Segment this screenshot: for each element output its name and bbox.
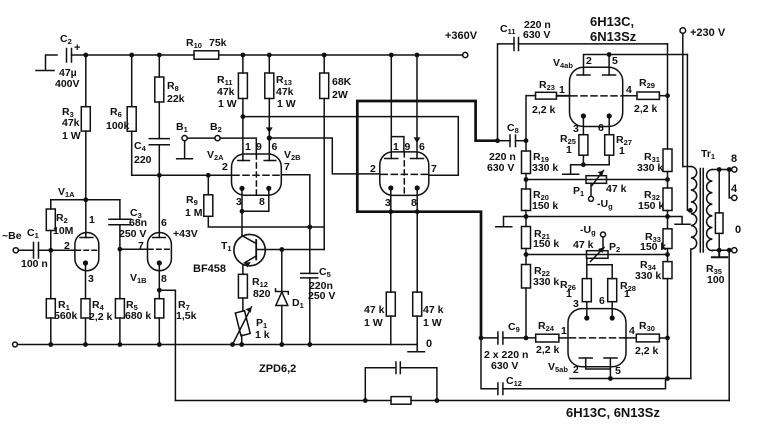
tube V5ab envelope xyxy=(568,309,626,367)
V2A anode plate xyxy=(238,160,250,162)
node C8 left / C11 xyxy=(495,138,500,143)
resistor R9 xyxy=(204,175,213,216)
node output bus bottom xyxy=(665,376,670,381)
svg-text:150 k: 150 k xyxy=(638,200,664,212)
svg-text:6: 6 xyxy=(161,217,167,229)
wire C11 to output bus xyxy=(519,43,668,45)
V3 pin6 anode wire xyxy=(416,55,418,159)
V3 grid dashed line xyxy=(381,173,427,175)
svg-text:330 k: 330 k xyxy=(532,162,558,174)
svg-text:6H13C,: 6H13C, xyxy=(590,14,634,29)
ground below R35 xyxy=(712,250,727,257)
node C3 / V1B grid xyxy=(118,247,123,252)
svg-text:0: 0 xyxy=(735,224,741,236)
node P1 arrow on rail xyxy=(230,342,235,347)
node V3A cathode on drive bus xyxy=(388,209,393,214)
resistor R33 xyxy=(663,229,672,249)
node C1/R2 grid xyxy=(48,248,53,253)
node P1 on rail xyxy=(239,342,244,347)
wire V5 anode output line xyxy=(570,378,691,380)
svg-text:6: 6 xyxy=(419,141,425,153)
V4A cathode xyxy=(581,113,586,134)
tube V4ab envelope xyxy=(570,67,623,126)
wire anode node to R2 and C3 xyxy=(51,199,120,201)
zener diode D1 ZPD6,2 xyxy=(276,250,289,345)
node R29 bus xyxy=(665,93,670,98)
node R33/R34 P2 line xyxy=(667,249,669,262)
svg-text:6H13C, 6N13Sz: 6H13C, 6N13Sz xyxy=(566,405,660,420)
wire R20 junction to R32 junction xyxy=(526,216,668,218)
wire 68K column xyxy=(323,55,325,73)
resistor R1 xyxy=(46,250,55,344)
resistor R32 xyxy=(663,188,672,211)
resistor R30 xyxy=(636,334,659,342)
wire V2B grid pin7 to T1 node xyxy=(281,175,310,227)
wire secondary top to terminal 8 xyxy=(712,169,731,171)
V4 pin2 anode plate xyxy=(577,74,590,76)
svg-text:100: 100 xyxy=(707,274,725,286)
capacitor C12 xyxy=(498,379,666,395)
svg-text:630 V: 630 V xyxy=(487,162,514,174)
wire feedback right riser xyxy=(728,250,730,400)
wire V2A grid bus xyxy=(132,174,232,176)
node rail R8 xyxy=(157,53,162,58)
node R32/R33 xyxy=(667,211,669,229)
node C4/V1B anode on grid bus xyxy=(157,173,162,178)
wire drive bus to C9 and C12 xyxy=(481,338,498,389)
svg-text:6: 6 xyxy=(598,122,604,134)
node R30 bus xyxy=(665,336,670,341)
wire R22 to C9 node xyxy=(525,288,527,338)
svg-text:560k: 560k xyxy=(54,310,78,322)
svg-text:630 V: 630 V xyxy=(491,360,518,372)
svg-text:1,5k: 1,5k xyxy=(176,310,197,322)
node R19/R20 P1 line xyxy=(525,174,527,190)
tube V1A envelope xyxy=(75,233,99,271)
potentiometer P2 47k xyxy=(587,232,609,262)
svg-text:~Be: ~Be xyxy=(2,230,22,242)
node V3B cathode on drive bus xyxy=(415,209,420,214)
svg-text:47k: 47k xyxy=(62,117,80,129)
node fb loop left xyxy=(363,398,368,403)
V4 pin5 anode plate xyxy=(603,74,616,76)
wire R12 to P1 xyxy=(242,298,244,311)
svg-text:1 W: 1 W xyxy=(364,317,383,329)
svg-text:4: 4 xyxy=(626,84,632,96)
svg-text:3: 3 xyxy=(385,197,391,209)
wire V4 cathode bracket xyxy=(583,155,609,165)
svg-text:7: 7 xyxy=(431,163,437,175)
wire V4 pin4 grid to R29 xyxy=(623,95,637,97)
node rail 68K xyxy=(322,53,327,58)
wire top rail left xyxy=(86,54,194,56)
wire R30 to bus xyxy=(659,337,667,339)
node R11 / V3 grid7 coupling xyxy=(241,114,246,119)
svg-text:8: 8 xyxy=(411,197,417,209)
terminal B2 xyxy=(215,136,220,141)
svg-text:150 k: 150 k xyxy=(533,238,559,250)
resistor R35 xyxy=(715,170,723,251)
resistor R12 xyxy=(238,274,247,298)
resistor R11 xyxy=(238,73,247,99)
svg-text:3: 3 xyxy=(88,273,94,285)
wire R29 to output bus xyxy=(659,95,667,97)
node V4 cathodes xyxy=(581,162,586,167)
svg-text:100k: 100k xyxy=(106,120,130,132)
svg-text:BF458: BF458 xyxy=(193,263,226,275)
node fb loop right xyxy=(435,398,440,403)
svg-text:1 W: 1 W xyxy=(277,98,296,110)
wire C11 riser xyxy=(498,44,515,141)
V3 center divider dashed xyxy=(403,152,405,196)
svg-text:2,2 k: 2,2 k xyxy=(635,345,659,357)
wire B1 to B2 xyxy=(187,137,215,139)
capacitor C8 xyxy=(498,135,527,147)
node V2 pin6 anode xyxy=(267,135,272,140)
V3B cathode xyxy=(415,185,420,292)
svg-text:330 k: 330 k xyxy=(533,276,559,288)
svg-text:47 k: 47 k xyxy=(423,304,444,316)
arrow into pin6 node xyxy=(266,127,273,133)
chassis tick R20/R21 xyxy=(496,217,526,227)
svg-text:150 k: 150 k xyxy=(532,200,558,212)
transistor T1 xyxy=(234,234,265,274)
resistor 47k 1W right xyxy=(413,292,422,344)
svg-text:1 W: 1 W xyxy=(423,317,442,329)
svg-text:150 k: 150 k xyxy=(640,241,666,253)
resistor R2 xyxy=(46,200,55,251)
wire bold V3 cathode drive bus xyxy=(357,212,481,338)
arrow on V3 pin6 xyxy=(414,137,421,143)
svg-text:2: 2 xyxy=(573,364,579,376)
svg-text:ZPD6,2: ZPD6,2 xyxy=(259,363,296,375)
ground 0 output xyxy=(408,345,425,352)
svg-text:330 k: 330 k xyxy=(637,162,663,174)
V3B anode plate xyxy=(411,158,424,160)
svg-text:1: 1 xyxy=(624,288,630,300)
svg-text:3: 3 xyxy=(573,123,579,135)
svg-text:1: 1 xyxy=(559,84,565,96)
svg-text:250 V: 250 V xyxy=(119,228,146,240)
node C5 on rail xyxy=(307,342,312,347)
capacitor C2 xyxy=(67,49,86,63)
wire R9 to T1 node xyxy=(208,216,324,227)
svg-text:9: 9 xyxy=(405,141,411,153)
svg-text:1: 1 xyxy=(566,288,572,300)
svg-text:+360V: +360V xyxy=(445,30,478,42)
node sec top tap4 xyxy=(727,167,732,172)
node C9 left xyxy=(479,336,484,341)
resistor R20 xyxy=(522,189,531,211)
wire V1B grid xyxy=(120,248,148,250)
V3A cathode xyxy=(388,185,393,292)
wire +230V to primary top xyxy=(682,33,684,166)
wire bold V3 cathode to C8 xyxy=(357,101,497,212)
wire R23 to V4 pin1 xyxy=(557,95,570,97)
V2B anode plate xyxy=(264,160,276,162)
svg-text:6: 6 xyxy=(599,295,605,307)
svg-text:1 k: 1 k xyxy=(255,329,270,341)
node R7 rail xyxy=(157,342,162,347)
wire R11 to V2 pin1 anode xyxy=(242,99,244,161)
svg-text:330 k: 330 k xyxy=(635,270,661,282)
wire V2B anode to V3 pin2 xyxy=(269,138,380,174)
wire V5 anode staple xyxy=(586,358,611,379)
potentiometer P1 47k xyxy=(586,171,607,202)
wire anode staple to primary center tap xyxy=(687,55,690,211)
svg-text:8: 8 xyxy=(259,196,265,208)
svg-text:100 n: 100 n xyxy=(21,258,48,270)
wire R3 column xyxy=(85,55,87,107)
svg-text:2,2 k: 2,2 k xyxy=(89,311,113,323)
capacitor C1 xyxy=(18,243,75,259)
svg-text:820: 820 xyxy=(253,288,271,300)
V5B cathode xyxy=(610,302,615,321)
node R31/R32 P1 line xyxy=(667,172,669,189)
svg-text:250 V: 250 V xyxy=(308,290,335,302)
V2 center divider dashed xyxy=(255,154,257,195)
V4 grid dashed xyxy=(571,95,621,97)
resistor R28 xyxy=(608,279,617,302)
resistor R29 xyxy=(637,92,659,99)
wire R6 column xyxy=(131,55,133,107)
resistor R6 xyxy=(127,107,136,132)
node primary center tap xyxy=(688,208,693,213)
resistor R23 xyxy=(536,92,557,99)
wire feedback bottom line xyxy=(175,400,729,402)
svg-text:9: 9 xyxy=(256,141,262,153)
resistor R26 xyxy=(582,279,591,302)
svg-text:68K: 68K xyxy=(332,76,352,88)
svg-text:2: 2 xyxy=(370,163,376,175)
node C9 junction xyxy=(524,336,529,341)
resistor R24 xyxy=(536,334,559,342)
resistor R5 xyxy=(115,249,124,344)
node R21/R22 P2 line xyxy=(525,249,527,265)
svg-text:5: 5 xyxy=(615,365,621,377)
resistor R3 xyxy=(81,107,90,131)
resistor R4 xyxy=(81,299,90,345)
wire C4 to V1B anode xyxy=(158,145,160,238)
wire tap 4 xyxy=(729,170,732,198)
terminal 4 xyxy=(732,195,737,200)
node R5 rail xyxy=(118,342,123,347)
terminal input ~Be xyxy=(13,248,18,253)
svg-text:6: 6 xyxy=(272,141,278,153)
svg-text:2: 2 xyxy=(586,55,592,67)
terminal ground rail left xyxy=(13,342,18,347)
svg-text:1: 1 xyxy=(89,214,95,226)
terminal 8 xyxy=(732,167,737,172)
svg-text:2,2 k: 2,2 k xyxy=(536,344,560,356)
wire V4 pin1 grid xyxy=(557,95,570,97)
resistor R21 xyxy=(522,227,531,249)
capacitor C4 xyxy=(149,139,169,145)
capacitor C11 xyxy=(514,38,519,51)
V3 pin9 jog xyxy=(391,137,404,152)
svg-text:1: 1 xyxy=(566,144,572,156)
svg-text:47 k: 47 k xyxy=(606,183,627,195)
terminal 0 xyxy=(732,248,737,253)
svg-text:400V: 400V xyxy=(55,78,80,90)
svg-text:47k: 47k xyxy=(217,86,235,98)
chassis tick R32/R33 xyxy=(668,217,691,225)
wire T1 collector xyxy=(265,249,324,251)
V5 pin2 anode plate xyxy=(579,357,592,359)
wire V2 cathodes to T1 base xyxy=(241,211,243,235)
V2 grid dashed line xyxy=(233,174,280,176)
resistor 47k 1W left xyxy=(386,292,395,344)
V1A anode plate xyxy=(80,237,93,239)
svg-text:47 k: 47 k xyxy=(573,239,594,251)
capacitor feedback loop xyxy=(365,362,437,401)
V5A cathode xyxy=(584,302,589,321)
V3A anode plate xyxy=(385,158,398,160)
svg-text:3: 3 xyxy=(573,298,579,310)
capacitor C5 xyxy=(301,227,318,345)
capacitor C3 xyxy=(109,200,131,249)
wire R8 to C4 xyxy=(158,102,160,139)
svg-text:7: 7 xyxy=(284,161,290,173)
resistor feedback xyxy=(391,397,411,405)
node V5 anodes xyxy=(608,376,613,381)
node V4 pin5 xyxy=(607,52,612,57)
svg-text:8: 8 xyxy=(161,273,167,285)
svg-text:22k: 22k xyxy=(167,93,185,105)
svg-text:10M: 10M xyxy=(53,225,74,237)
resistor R13 xyxy=(265,73,274,99)
wire feedback from V1B cathode xyxy=(159,290,175,400)
svg-text:+: + xyxy=(74,42,80,54)
terminal B1 xyxy=(182,136,187,141)
resistor R7 xyxy=(155,299,164,345)
svg-text:4: 4 xyxy=(629,325,635,337)
V5 grid dashed xyxy=(570,337,625,339)
svg-text:1 W: 1 W xyxy=(218,98,237,110)
wire R11 column xyxy=(242,55,244,73)
node V2 cathodes xyxy=(240,209,245,214)
V3 pin1 anode wire xyxy=(390,55,392,159)
ground B1 xyxy=(177,141,193,159)
resistor R19 xyxy=(522,141,531,174)
wire R8 column xyxy=(158,55,160,77)
node V1A anode xyxy=(83,197,88,202)
node fb tap xyxy=(727,248,732,253)
terminal +230V xyxy=(680,28,686,34)
svg-text:3: 3 xyxy=(236,196,242,208)
svg-text:680 k: 680 k xyxy=(125,310,151,322)
resistor R8 xyxy=(155,77,164,102)
P2 bias line xyxy=(526,254,667,256)
svg-text:1 W: 1 W xyxy=(62,130,81,142)
node R9 top xyxy=(206,173,211,178)
wire secondary bottom to terminal 0 xyxy=(712,249,731,251)
wire R30 xyxy=(625,337,637,339)
svg-text:+230 V: +230 V xyxy=(690,27,726,39)
potentiometer P1 (preset) xyxy=(233,307,252,345)
wire coupling V2A anode to V3 pin7 xyxy=(243,117,458,176)
node R1 rail xyxy=(48,342,53,347)
svg-text:1: 1 xyxy=(393,141,399,153)
resistor 68K 2W xyxy=(320,73,329,99)
V2A cathode xyxy=(239,186,244,212)
node rail R11 xyxy=(241,53,246,58)
resistor R31 xyxy=(663,149,672,172)
output bus vertical xyxy=(667,44,669,149)
node rail V3 pin6 xyxy=(415,53,420,58)
svg-text:2W: 2W xyxy=(332,89,348,101)
svg-text:+43V: +43V xyxy=(173,228,198,240)
svg-text:220: 220 xyxy=(134,154,152,166)
node sec bottom xyxy=(717,248,722,253)
svg-text:75k: 75k xyxy=(209,37,227,49)
wire R13 column xyxy=(268,55,270,73)
node rail R6 xyxy=(129,53,134,58)
svg-text:47k: 47k xyxy=(276,86,294,98)
node T1 collector / D1 xyxy=(279,247,284,252)
node R4 rail xyxy=(83,342,88,347)
wire R13 to V2 pin6 anode xyxy=(268,99,270,161)
tube V3 envelope xyxy=(380,152,429,196)
V2B cathode xyxy=(266,186,271,212)
svg-text:2: 2 xyxy=(64,240,70,252)
svg-text:4: 4 xyxy=(731,183,738,195)
wire R6 to grid bus xyxy=(131,131,133,175)
V5 pin5 anode plate xyxy=(604,357,617,359)
chassis V4 cathode xyxy=(563,165,584,175)
tube V1B envelope xyxy=(148,233,172,271)
V1A cathode xyxy=(83,260,88,298)
svg-text:47 k: 47 k xyxy=(364,304,385,316)
V1B grid dashed xyxy=(149,248,171,250)
resistor R22 xyxy=(522,265,531,289)
V1B cathode xyxy=(157,260,162,298)
V4B cathode xyxy=(607,113,612,134)
bold drive lines xyxy=(357,101,497,338)
resistor R25 xyxy=(579,135,588,156)
wire R26 R28 feed bracket xyxy=(587,258,612,278)
capacitor C9 xyxy=(481,332,536,344)
node sec top R35 xyxy=(717,167,722,172)
terminal +360V xyxy=(463,52,468,57)
wire V2 cathode bracket xyxy=(242,210,269,212)
resistor R10 xyxy=(194,51,219,59)
tube V2A V2B envelope xyxy=(232,154,282,195)
wire R34 to R30 node xyxy=(667,279,669,379)
node R20/R21 xyxy=(524,214,529,219)
svg-text:1 M: 1 M xyxy=(185,207,203,219)
node C2/B+ junction xyxy=(83,53,88,58)
svg-text:2,2 k: 2,2 k xyxy=(532,104,556,116)
svg-text:5: 5 xyxy=(612,55,618,67)
node V2B grid / T1 collector bus xyxy=(307,225,312,230)
svg-text:6N13Sz: 6N13Sz xyxy=(590,29,637,44)
node rail R13 xyxy=(267,53,272,58)
wire top rail right xyxy=(219,54,463,56)
resistor R34 xyxy=(663,262,672,279)
wire R24 to V5 pin1 xyxy=(559,337,568,339)
svg-text:0: 0 xyxy=(426,338,432,350)
V4 anode staple +230 xyxy=(584,55,688,76)
svg-text:1: 1 xyxy=(561,325,567,337)
wire bottom ground rail xyxy=(17,344,417,346)
node D1 on rail xyxy=(279,342,284,347)
wire 68K to T1 collector node xyxy=(323,99,325,250)
wire R3 to V1A anode node xyxy=(85,131,87,200)
node rail V3 pin1 xyxy=(389,53,394,58)
svg-text:7: 7 xyxy=(138,240,144,252)
svg-text:1: 1 xyxy=(619,145,625,157)
